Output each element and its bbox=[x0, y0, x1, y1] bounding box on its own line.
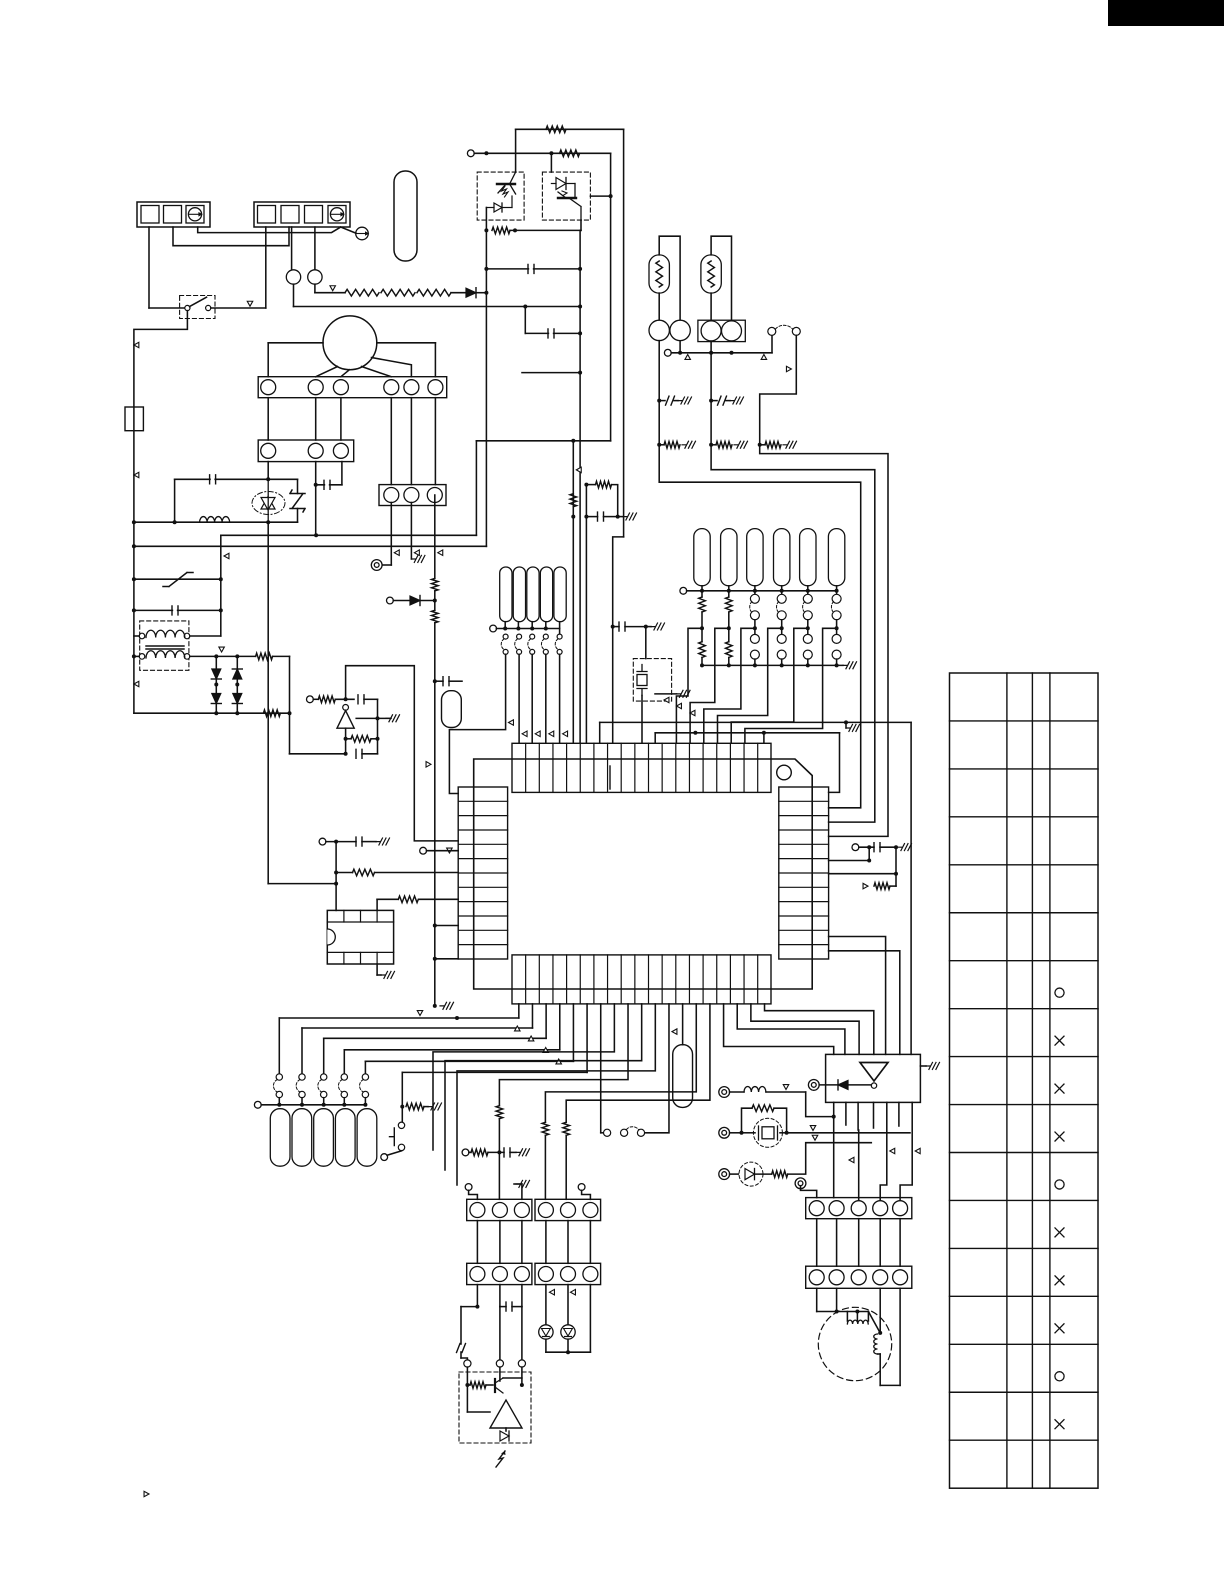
wire bbox=[559, 1004, 561, 1050]
marker bbox=[417, 1011, 423, 1016]
capacitor C4 bbox=[172, 606, 178, 615]
junction bbox=[455, 1016, 459, 1020]
IC1 top pin divider bbox=[648, 743, 650, 792]
resistor R18 bbox=[874, 883, 890, 890]
wire bbox=[362, 841, 376, 843]
junction bbox=[484, 267, 488, 271]
wire bbox=[836, 628, 838, 634]
marker bbox=[134, 342, 139, 348]
transformer T1 enclosure bbox=[140, 621, 189, 670]
junction bbox=[584, 483, 588, 487]
wire bbox=[545, 1285, 547, 1325]
wire bbox=[467, 1384, 470, 1386]
key contact bbox=[517, 649, 522, 654]
neon lamp NE2 bbox=[308, 270, 322, 284]
terminal bbox=[680, 587, 687, 594]
junction bbox=[334, 882, 338, 886]
wire bbox=[781, 591, 783, 595]
marker bbox=[664, 697, 669, 703]
IC1 left pin divider bbox=[458, 929, 507, 931]
winding terminal bbox=[184, 633, 190, 639]
wire bbox=[451, 292, 466, 294]
wire bbox=[771, 336, 773, 353]
junction bbox=[376, 737, 380, 741]
junction bbox=[513, 228, 517, 232]
IC1 top pin divider bbox=[688, 743, 690, 792]
wire bbox=[324, 1037, 546, 1039]
terminal bbox=[808, 1080, 819, 1091]
junction bbox=[894, 872, 898, 876]
switch arc bbox=[338, 1080, 342, 1093]
wire bbox=[816, 1219, 818, 1267]
connector CN2 bbox=[258, 377, 447, 398]
junction bbox=[571, 439, 575, 443]
wire bbox=[730, 1091, 744, 1093]
wire bbox=[586, 1004, 588, 1073]
marker bbox=[863, 883, 868, 889]
wire bbox=[514, 1183, 522, 1185]
key contact bbox=[832, 634, 841, 643]
marker bbox=[810, 1126, 816, 1131]
wire bbox=[291, 227, 293, 270]
earth terminal E bbox=[356, 227, 369, 240]
capacitor C11 bbox=[874, 843, 880, 852]
junction bbox=[235, 683, 239, 687]
lamp LP2 filament bbox=[708, 261, 715, 287]
neon lamp NE1 bbox=[286, 270, 300, 284]
IC1 bottom pin divider bbox=[552, 955, 554, 1004]
marker bbox=[447, 848, 453, 853]
marker bbox=[849, 1157, 854, 1163]
marker bbox=[812, 1135, 818, 1140]
connector CN8 pin bbox=[538, 1267, 553, 1282]
wire bbox=[434, 591, 436, 610]
ground bbox=[411, 555, 425, 562]
winding terminal bbox=[184, 654, 190, 660]
junction bbox=[433, 679, 437, 683]
marker bbox=[509, 720, 514, 726]
fuse F1 bbox=[125, 407, 143, 431]
junction bbox=[523, 305, 527, 309]
wire bbox=[315, 292, 345, 294]
wire bbox=[521, 1221, 523, 1264]
wire bbox=[268, 342, 323, 344]
junction bbox=[530, 627, 534, 631]
wire bbox=[613, 626, 619, 628]
connector CN-B outline bbox=[254, 202, 350, 227]
wire bbox=[460, 1352, 462, 1358]
wire bbox=[589, 1285, 591, 1353]
key switch arc bbox=[750, 602, 752, 613]
polar capacitor bbox=[457, 1344, 466, 1353]
IC1 bottom pin divider bbox=[538, 955, 540, 1004]
junction bbox=[855, 1310, 859, 1314]
wire bbox=[724, 1004, 834, 1055]
IR pin bbox=[496, 1360, 503, 1367]
wire bbox=[335, 698, 354, 700]
wire bbox=[364, 1098, 366, 1105]
legend table row line bbox=[950, 1247, 1099, 1249]
wire bbox=[829, 937, 886, 1055]
wire bbox=[496, 628, 559, 630]
key switch cap bbox=[800, 529, 816, 586]
junction bbox=[700, 663, 704, 667]
key contact bbox=[517, 634, 522, 639]
wire bbox=[545, 622, 547, 629]
wire bbox=[836, 591, 838, 595]
IC1 pin 1 mark bbox=[609, 766, 611, 789]
wire bbox=[659, 401, 861, 808]
wire bbox=[134, 635, 139, 637]
connector CN-A pin 3 bbox=[186, 206, 204, 224]
wire bbox=[267, 522, 269, 883]
wire bbox=[382, 564, 391, 566]
wire bbox=[745, 628, 837, 742]
wire bbox=[364, 1061, 366, 1074]
wire bbox=[346, 738, 351, 740]
wire bbox=[467, 1411, 490, 1413]
wire bbox=[755, 1173, 772, 1175]
junction bbox=[867, 845, 871, 849]
IC2 body bbox=[327, 910, 393, 964]
IC1 top pin divider bbox=[538, 743, 540, 792]
junction bbox=[578, 305, 582, 309]
wire bbox=[365, 1060, 573, 1062]
wire bbox=[512, 1306, 522, 1308]
membrane key bbox=[335, 1109, 355, 1167]
junction bbox=[727, 589, 731, 593]
IC1 bottom pin row bbox=[512, 955, 771, 1004]
wire bbox=[294, 306, 581, 308]
wire bbox=[344, 1049, 559, 1051]
junction bbox=[762, 731, 766, 735]
key switch arc bbox=[541, 639, 544, 650]
wire bbox=[659, 400, 665, 402]
wire bbox=[880, 1102, 887, 1200]
triac TR1 bbox=[261, 479, 275, 522]
marker bbox=[543, 1048, 549, 1053]
switch contact bbox=[604, 1129, 611, 1136]
wire bbox=[546, 1351, 591, 1353]
IC1 top pin divider bbox=[661, 743, 663, 792]
legend table row line bbox=[950, 1152, 1099, 1154]
wire bbox=[679, 341, 681, 353]
legend table row line bbox=[950, 1199, 1099, 1201]
wire bbox=[376, 964, 378, 975]
wire bbox=[711, 236, 731, 320]
diode D5 bbox=[232, 694, 242, 704]
wire bbox=[134, 655, 139, 657]
wire bbox=[819, 1084, 838, 1086]
switch contact bbox=[362, 1091, 368, 1097]
wire bbox=[500, 1306, 506, 1308]
IC2 pin divider bbox=[376, 952, 378, 964]
terminal bbox=[664, 349, 671, 356]
marker bbox=[556, 1059, 562, 1064]
wire bbox=[900, 1102, 912, 1200]
cap gap bbox=[549, 329, 553, 339]
wire bbox=[371, 738, 378, 740]
connector CN2 pin bbox=[384, 380, 399, 395]
wire bbox=[190, 635, 221, 637]
IC1 left pin divider bbox=[458, 944, 507, 946]
wire bbox=[290, 753, 346, 755]
junction bbox=[678, 351, 682, 355]
wire bbox=[816, 1288, 818, 1311]
legend table row line bbox=[950, 912, 1099, 914]
terminal bbox=[795, 1178, 806, 1189]
junction bbox=[835, 663, 839, 667]
diode D9 bbox=[838, 1080, 848, 1090]
IC1 bottom pin divider bbox=[716, 955, 718, 1004]
wire bbox=[604, 516, 618, 518]
wire bbox=[267, 398, 269, 440]
thermal cutout bbox=[394, 171, 417, 261]
wire bbox=[710, 293, 712, 320]
wire bbox=[545, 654, 547, 742]
resistor R13 bbox=[570, 494, 577, 507]
key contact bbox=[557, 649, 562, 654]
wire bbox=[461, 1306, 477, 1308]
wire bbox=[427, 850, 459, 852]
key contact bbox=[803, 634, 812, 643]
wire bbox=[434, 343, 436, 377]
wire bbox=[645, 627, 647, 659]
resistor R20 bbox=[496, 1106, 503, 1119]
driver input node bbox=[871, 1083, 876, 1088]
connector CN2 pin bbox=[333, 380, 348, 395]
membrane key bbox=[270, 1109, 290, 1167]
wire bbox=[376, 899, 378, 910]
junction bbox=[484, 291, 488, 295]
wire bbox=[216, 655, 237, 657]
capacitor C9 bbox=[598, 512, 604, 521]
wire bbox=[261, 1104, 365, 1106]
wire bbox=[531, 622, 533, 629]
resistor bbox=[699, 597, 706, 612]
junction bbox=[753, 589, 757, 593]
wire bbox=[711, 400, 717, 402]
connector CN5 pin bbox=[492, 1203, 507, 1218]
diode D2 bbox=[211, 669, 221, 679]
IC1 top pin divider bbox=[593, 743, 595, 792]
switch contact bbox=[637, 1129, 644, 1136]
wire bbox=[806, 1092, 834, 1117]
wire bbox=[655, 732, 839, 734]
junction bbox=[780, 589, 784, 593]
wire bbox=[625, 626, 646, 628]
connector CN9 bbox=[806, 1198, 912, 1219]
wire bbox=[190, 655, 217, 657]
diode D6 bbox=[410, 596, 420, 606]
wire bbox=[710, 342, 712, 353]
zener diode in Q1 bbox=[486, 196, 512, 212]
LED D8 symbol bbox=[564, 1329, 573, 1337]
marker bbox=[786, 366, 791, 372]
IC1 left pin divider bbox=[458, 843, 507, 845]
wire bbox=[895, 847, 897, 886]
junction bbox=[214, 654, 218, 658]
IC1 bottom pin divider bbox=[702, 955, 704, 1004]
junction bbox=[314, 483, 318, 487]
junction bbox=[740, 1131, 744, 1135]
LED D7 bbox=[539, 1325, 553, 1339]
transformer primary bbox=[146, 630, 185, 637]
IC1 bottom pin divider bbox=[607, 955, 609, 1004]
junction bbox=[835, 1310, 839, 1314]
key contact bbox=[543, 634, 548, 639]
ground bbox=[898, 844, 912, 851]
wire bbox=[445, 1004, 642, 1170]
legend circle mark bbox=[1055, 1372, 1064, 1381]
key contact bbox=[803, 611, 812, 620]
wire bbox=[590, 195, 610, 197]
connector CN7 bbox=[467, 1263, 532, 1284]
wire bbox=[236, 656, 238, 713]
connector CN2 pin bbox=[404, 380, 419, 395]
legend circle mark bbox=[1055, 1180, 1064, 1189]
resonator bbox=[442, 691, 462, 728]
inductor L2 bbox=[744, 1087, 766, 1092]
connector CN3 pin bbox=[308, 443, 323, 458]
wire bbox=[476, 1285, 478, 1307]
legend table row line bbox=[950, 1343, 1099, 1345]
ground bbox=[516, 1149, 530, 1156]
switch contact bbox=[299, 1091, 305, 1097]
switch contact bbox=[299, 1074, 305, 1080]
junction bbox=[497, 1150, 501, 1154]
resistor bbox=[726, 642, 733, 658]
wire bbox=[505, 1428, 507, 1431]
junction bbox=[475, 1305, 479, 1309]
marker bbox=[394, 550, 399, 556]
IC1 top pin divider bbox=[620, 743, 622, 792]
key switch cap bbox=[513, 567, 525, 622]
connector CN-B screw terminal bbox=[330, 208, 343, 221]
interlock contact bbox=[768, 327, 776, 335]
junction bbox=[780, 626, 784, 630]
key contact bbox=[750, 611, 759, 620]
key switch arc bbox=[803, 602, 805, 613]
connector CN-A screw terminal bbox=[188, 208, 201, 221]
polar capacitor bbox=[666, 396, 675, 405]
wire bbox=[566, 1004, 710, 1122]
key contact bbox=[832, 594, 841, 603]
key switch cap bbox=[540, 567, 552, 622]
wire bbox=[858, 1130, 860, 1201]
wire bbox=[278, 1018, 280, 1074]
IR resistor bbox=[470, 1382, 486, 1389]
wire bbox=[531, 654, 533, 742]
wire bbox=[134, 545, 487, 547]
junction bbox=[844, 720, 848, 724]
connector CN2 pin bbox=[308, 380, 323, 395]
wire bbox=[589, 1221, 591, 1264]
switch arc bbox=[318, 1080, 322, 1093]
membrane key bbox=[314, 1109, 334, 1167]
diode D1 bbox=[466, 288, 476, 298]
wire bbox=[211, 307, 266, 309]
switch contact bbox=[206, 305, 211, 310]
wire bbox=[387, 1151, 402, 1155]
junction bbox=[753, 663, 757, 667]
wire bbox=[710, 353, 712, 401]
transistor Q1 bbox=[497, 172, 516, 197]
ground bbox=[677, 690, 691, 697]
IC1 top pin divider bbox=[634, 743, 636, 792]
wire bbox=[268, 883, 336, 885]
wire bbox=[899, 1219, 901, 1267]
wire bbox=[567, 1221, 569, 1264]
resistor R15 bbox=[664, 442, 680, 449]
legend cross mark bbox=[1055, 1132, 1064, 1141]
junction bbox=[611, 625, 615, 629]
wire bbox=[711, 444, 716, 446]
terminal bbox=[578, 1184, 585, 1191]
terminal bbox=[420, 847, 427, 854]
wire bbox=[335, 842, 337, 911]
switch contact bbox=[276, 1091, 282, 1097]
legend table row line bbox=[950, 1391, 1099, 1393]
wire bbox=[807, 628, 809, 634]
wire bbox=[613, 537, 624, 627]
IR transistor bbox=[495, 1378, 503, 1393]
junction bbox=[609, 194, 613, 198]
legend table row line bbox=[950, 1104, 1099, 1106]
ground bbox=[843, 662, 857, 669]
page number block bbox=[1108, 0, 1224, 26]
socket pair housing bbox=[698, 320, 745, 341]
wire bbox=[726, 400, 730, 402]
switch contact bbox=[362, 1074, 368, 1080]
wire bbox=[435, 680, 443, 682]
wire bbox=[419, 898, 458, 900]
key switch cap bbox=[500, 567, 512, 622]
resistor R17 bbox=[765, 442, 781, 449]
marker bbox=[219, 647, 225, 652]
wire bbox=[742, 1132, 756, 1134]
connector CN10 pin bbox=[873, 1270, 888, 1285]
wire bbox=[476, 292, 486, 294]
motor M2 enclosure bbox=[818, 1307, 891, 1380]
IC1 top pin row bbox=[512, 743, 771, 792]
wire bbox=[781, 628, 783, 634]
wire bbox=[485, 230, 487, 546]
ground bbox=[440, 1002, 454, 1009]
wire bbox=[920, 1065, 926, 1067]
legend circle mark bbox=[1055, 988, 1064, 997]
membrane key bbox=[357, 1109, 377, 1167]
wire bbox=[567, 1339, 569, 1352]
switch contact bbox=[321, 1074, 327, 1080]
driver IC3 body bbox=[826, 1054, 921, 1102]
wire bbox=[765, 1004, 874, 1055]
wire bbox=[517, 622, 519, 629]
marker bbox=[426, 762, 431, 768]
wire bbox=[856, 1312, 858, 1322]
IC2 pin divider bbox=[376, 910, 378, 922]
wire bbox=[515, 129, 517, 172]
wire bbox=[845, 722, 847, 728]
IC1 bottom pin divider bbox=[648, 955, 650, 1004]
junction bbox=[867, 859, 871, 863]
motor winding bbox=[874, 1334, 878, 1354]
wire bbox=[545, 1004, 696, 1122]
wire bbox=[829, 860, 870, 862]
wire bbox=[731, 628, 808, 742]
marker bbox=[677, 703, 682, 709]
wire bbox=[134, 712, 290, 714]
